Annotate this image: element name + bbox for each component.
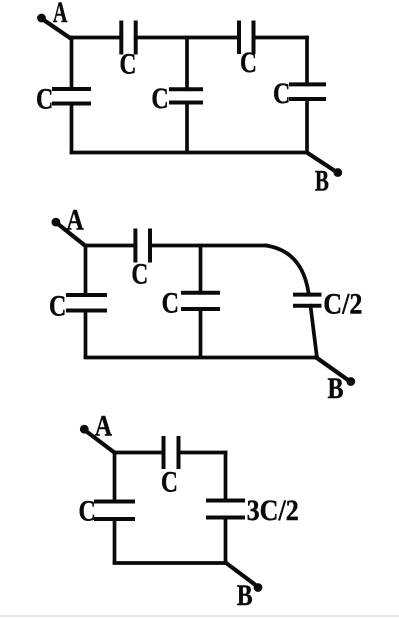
svg-text:B: B [237, 578, 253, 611]
terminal A dot (middle circuit) [52, 218, 61, 227]
wire: left branch lower (middle circuit) [84, 311, 88, 358]
value label 3C/2 [247, 494, 299, 527]
wire: left branch lower (bottom circuit) [113, 519, 117, 563]
wire: top side, between series capacitors [136, 36, 239, 40]
wire: right branch upper (bottom circuit) [224, 453, 228, 501]
capacitor C/2 (right shunt, middle circuit) [295, 295, 320, 306]
svg-text:3C/2: 3C/2 [247, 494, 299, 527]
label B (bottom circuit) [237, 578, 253, 611]
svg-text:C: C [151, 81, 168, 114]
capacitor C (series, bottom circuit) [164, 438, 179, 467]
wire: lead from bottom-right corner to B [307, 152, 336, 171]
label A (middle circuit) [66, 203, 84, 236]
terminal A dot (top circuit) [37, 14, 46, 23]
wire: middle branch upper (middle circuit) [199, 246, 203, 293]
wire: right branch lower [305, 99, 309, 152]
wire: from C/2 down to bottom wire [311, 306, 318, 358]
wire: middle branch upper [185, 38, 189, 90]
svg-text:C: C [162, 286, 179, 319]
wire: top side, corner to series capacitor (bottom circuit) [115, 451, 164, 455]
wire: left branch upper (middle circuit) [84, 246, 88, 296]
wire: lead from bottom corner to B (middle circuit) [317, 358, 348, 380]
svg-text:A: A [53, 0, 68, 29]
svg-text:C: C [131, 257, 148, 290]
value label C (left shunt, middle circuit) [49, 289, 66, 322]
terminal B dot (middle circuit) [346, 377, 355, 386]
svg-text:B: B [315, 164, 329, 198]
label B (middle circuit) [328, 371, 344, 404]
value label C (first series) [120, 47, 137, 80]
wire: left branch upper (bottom circuit) [113, 453, 117, 502]
svg-text:C: C [120, 47, 137, 80]
wire: left branch upper [70, 38, 74, 90]
wire: right branch upper [305, 38, 309, 85]
svg-text:C: C [273, 76, 290, 109]
svg-text:B: B [328, 371, 344, 404]
value label C (series, middle circuit) [131, 257, 148, 290]
wire: top side, capacitor to top-right corner (bottom circuit) [179, 451, 226, 455]
capacitor C (right shunt, top circuit) [291, 84, 324, 99]
wire: lead from A to top-left corner (middle circuit) [58, 224, 86, 246]
wire: lead from A to top-left corner (bottom circuit) [87, 432, 116, 454]
terminal B dot (top circuit) [333, 168, 342, 177]
capacitor C (left shunt, top circuit) [54, 89, 89, 104]
wire: lead from bottom corner to B (bottom circuit) [226, 563, 256, 586]
label A (top circuit) [53, 0, 68, 29]
wire: bottom side (middle circuit) [86, 356, 318, 360]
wire: top side, corner to first capacitor [72, 36, 122, 40]
wire: right branch lower (bottom circuit) [224, 518, 228, 563]
svg-text:C: C [161, 465, 178, 498]
wire: left branch lower [70, 104, 74, 153]
wire: middle branch lower (middle circuit) [199, 309, 203, 357]
wire: curved lead down to C/2 [266, 246, 309, 293]
value label C (left shunt) [36, 82, 53, 115]
value label C (middle shunt) [151, 81, 168, 114]
capacitor C (middle shunt, middle circuit) [183, 293, 218, 309]
wire: middle branch lower [185, 103, 189, 153]
svg-text:C: C [240, 45, 257, 78]
wire: lead from A to top-left corner [43, 20, 72, 40]
wire: top side, capacitor to curve start (middle circuit) [150, 244, 266, 248]
capacitor C (left shunt, bottom circuit) [96, 502, 133, 520]
wire: top side, corner to series capacitor (middle circuit) [86, 244, 136, 248]
wire: top side, second capacitor to top-right corner [254, 36, 308, 40]
value label C (series, bottom circuit) [161, 465, 178, 498]
value label C (right shunt) [273, 76, 290, 109]
capacitor C (left shunt, middle circuit) [68, 295, 105, 311]
capacitor C (second series, top circuit) [239, 23, 254, 53]
svg-text:C: C [79, 494, 96, 527]
capacitor 3C/2 (right shunt, bottom circuit) [208, 501, 243, 518]
svg-text:C/2: C/2 [323, 288, 362, 321]
capacitor C (series, middle circuit) [135, 231, 150, 261]
label B (top circuit) [315, 164, 329, 198]
value label C (middle shunt, middle circuit) [162, 286, 179, 319]
capacitor C (middle shunt, top circuit) [171, 89, 201, 102]
wire: bottom side (top circuit) [72, 151, 307, 155]
svg-text:C: C [49, 289, 66, 322]
terminal B dot (bottom circuit) [254, 583, 263, 592]
value label C (left shunt, bottom circuit) [79, 494, 96, 527]
capacitor C (first series, top circuit) [121, 23, 135, 53]
value label C/2 [323, 288, 362, 321]
terminal A dot (bottom circuit) [80, 425, 89, 434]
svg-text:C: C [36, 82, 53, 115]
wire: bottom side (bottom circuit) [115, 561, 226, 565]
value label C (second series) [240, 45, 257, 78]
bottom page rule [0, 615, 399, 617]
label A (bottom circuit) [95, 409, 113, 442]
